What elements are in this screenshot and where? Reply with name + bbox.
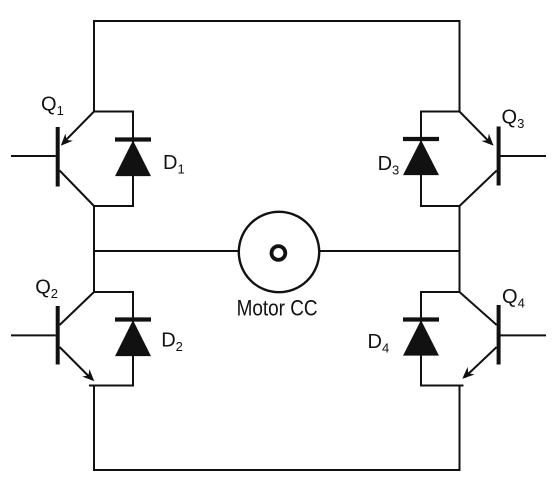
svg-text:Motor CC: Motor CC [237, 296, 318, 321]
